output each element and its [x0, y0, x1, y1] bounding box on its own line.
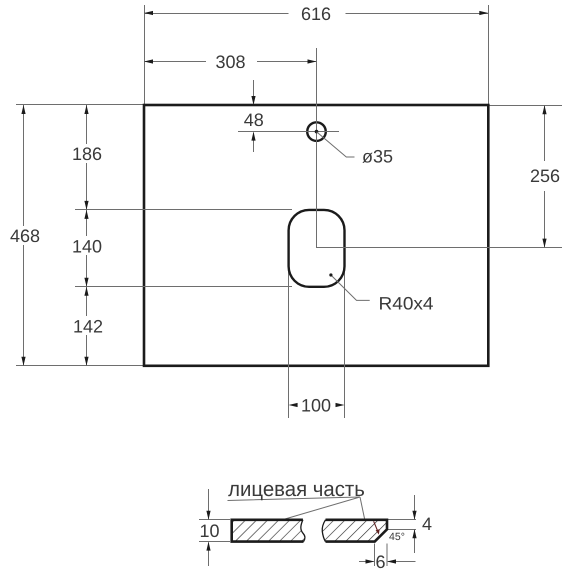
svg-text:R40x4: R40x4	[379, 294, 434, 314]
svg-text:6: 6	[375, 552, 385, 570]
svg-text:256: 256	[530, 166, 560, 186]
svg-text:10: 10	[199, 521, 219, 541]
svg-text:616: 616	[301, 4, 331, 24]
svg-text:лицевая часть: лицевая часть	[228, 478, 365, 501]
svg-text:140: 140	[72, 237, 102, 257]
svg-text:45°: 45°	[389, 531, 405, 543]
svg-text:186: 186	[72, 144, 102, 164]
svg-text:308: 308	[215, 52, 245, 72]
svg-text:468: 468	[10, 226, 40, 246]
svg-text:4: 4	[422, 514, 432, 534]
svg-text:142: 142	[73, 317, 103, 337]
svg-text:ø35: ø35	[362, 147, 393, 167]
svg-text:100: 100	[301, 396, 331, 416]
svg-text:48: 48	[244, 110, 264, 130]
